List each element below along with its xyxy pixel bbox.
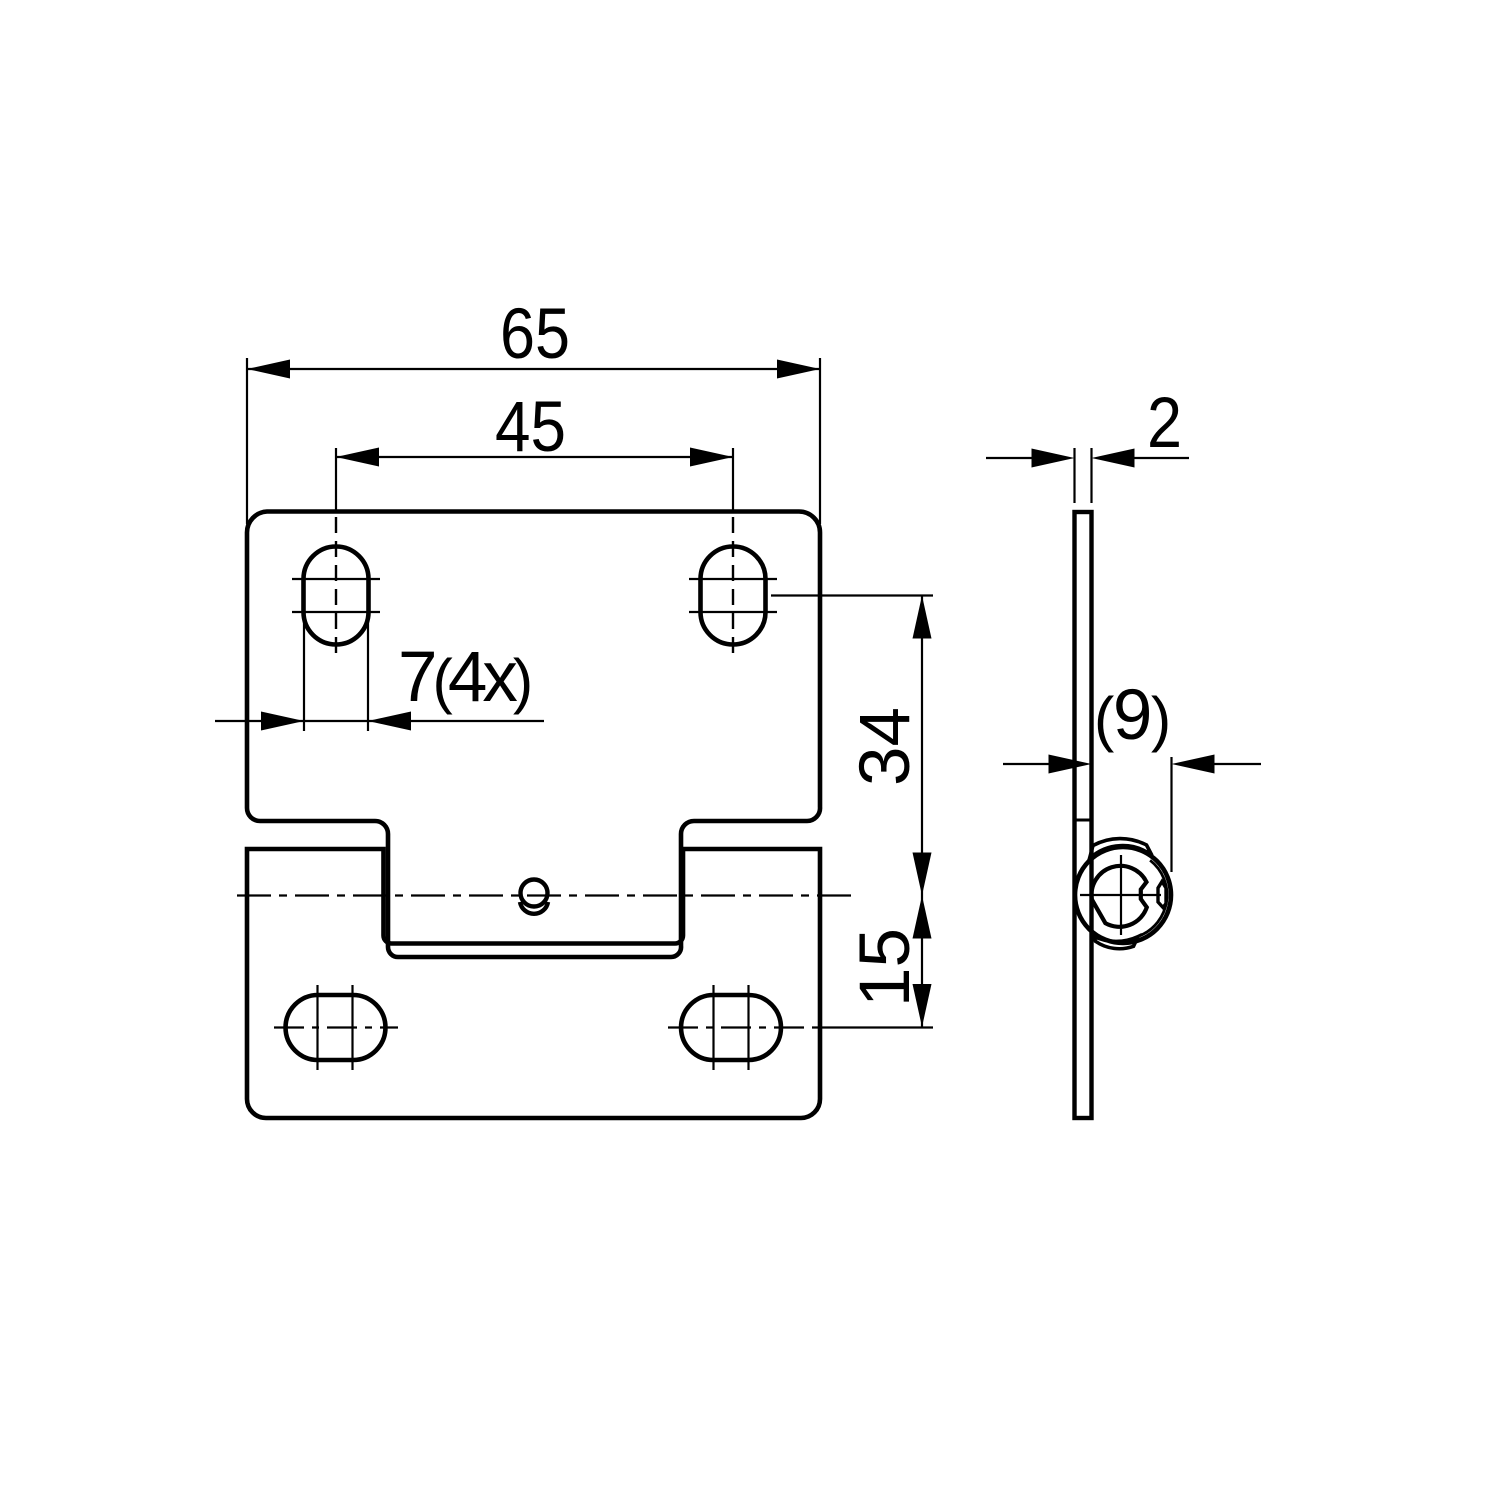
dimension 2: left arrowhead (1032, 449, 1075, 468)
dimension 2: dimension line tails (986, 457, 1035, 459)
dimension 65: extension lines (246, 358, 248, 524)
dimension (9): right arrowhead (1172, 755, 1215, 774)
dimension 65: dimension line (247, 368, 820, 370)
dimension 45: extension lines (335, 448, 337, 510)
side view: upper/lower plate separation tick (1073, 819, 1094, 822)
svg-text:(9): (9) (1094, 676, 1170, 755)
dashed vertical centerline upper-left slot (335, 517, 337, 654)
slot lower-left (oblong hole) (286, 995, 386, 1060)
dimension (9): left arrowhead (1049, 755, 1092, 774)
svg-text:2: 2 (1147, 384, 1182, 463)
dimension 34: extension line at upper slot center (771, 594, 933, 596)
dimension (9): dimension line tails (1003, 763, 1052, 765)
dimension 34: bottom arrowhead (913, 853, 932, 896)
dimension 15: top arrowhead (913, 896, 932, 939)
side view: clip vertical crosshair (1120, 855, 1122, 935)
side view: clip bottom tab (1094, 936, 1139, 949)
dimension 15: bottom arrowhead (913, 984, 932, 1027)
lower plate outline (front view) (247, 849, 820, 1118)
dimension (9): extension line right (1170, 757, 1172, 872)
dimension 65: left arrowhead (247, 360, 290, 379)
crosshair lines upper-left slot (292, 578, 380, 580)
dimension 15: extension line at lower slot center (812, 1026, 933, 1028)
dimension 7(4x): dimension line segments (215, 720, 304, 722)
dash-dot centerline lower-right slot (668, 1026, 812, 1028)
dimension 45: dimension line (336, 456, 733, 458)
dimension 2: right arrowhead (1092, 449, 1135, 468)
upper plate outline (front view) (247, 512, 820, 958)
slot upper-right (oblong hole) (701, 547, 766, 645)
side view: clip top tab (1090, 839, 1153, 859)
dimension 2: extension lines (1073, 448, 1075, 503)
dimension 7(4x): extension lines (303, 615, 305, 731)
svg-text:7(4x): 7(4x) (398, 638, 530, 717)
side view: clip horizontal crosshair (1080, 894, 1161, 896)
horizontal hinge centerline (dash-dot) (237, 894, 852, 896)
svg-text:65: 65 (500, 295, 570, 374)
dimension 65: right arrowhead (777, 360, 820, 379)
dimension 45: left arrowhead (336, 448, 379, 467)
dash-dot centerline lower-left slot (274, 1026, 398, 1028)
crosshair lines lower-left slot (316, 985, 318, 1070)
slot upper-left (oblong hole) (304, 547, 369, 645)
side view: clip outer circle (1075, 847, 1171, 943)
dimension 7(4x): right arrowhead (368, 712, 411, 731)
dimension 15: value text (rotated) (850, 928, 921, 1007)
dimension 45: right arrowhead (690, 448, 733, 467)
side view: clip inner hole with nub (1092, 866, 1147, 927)
dimension 34: value text (rotated) (850, 707, 921, 786)
dimension 34/15: vertical dimension line (921, 596, 923, 1028)
dimension 34: top arrowhead (913, 596, 932, 639)
dashed vertical centerline upper-right slot (732, 517, 734, 654)
crosshair lines upper-right slot (689, 578, 777, 580)
crosshair lines lower-right slot (712, 985, 714, 1070)
side view: clip inner parallel arc (right) (1140, 860, 1168, 936)
svg-text:45: 45 (495, 388, 566, 467)
center pivot hole lower arc (520, 902, 548, 914)
side view: clip side slot hexagon (1158, 882, 1166, 908)
center pivot hole (521, 880, 548, 907)
side view: plate edge-on rectangle (1075, 512, 1092, 1118)
dimension 7(4x): left arrowhead (261, 712, 304, 731)
slot lower-right (oblong hole) (681, 995, 781, 1060)
